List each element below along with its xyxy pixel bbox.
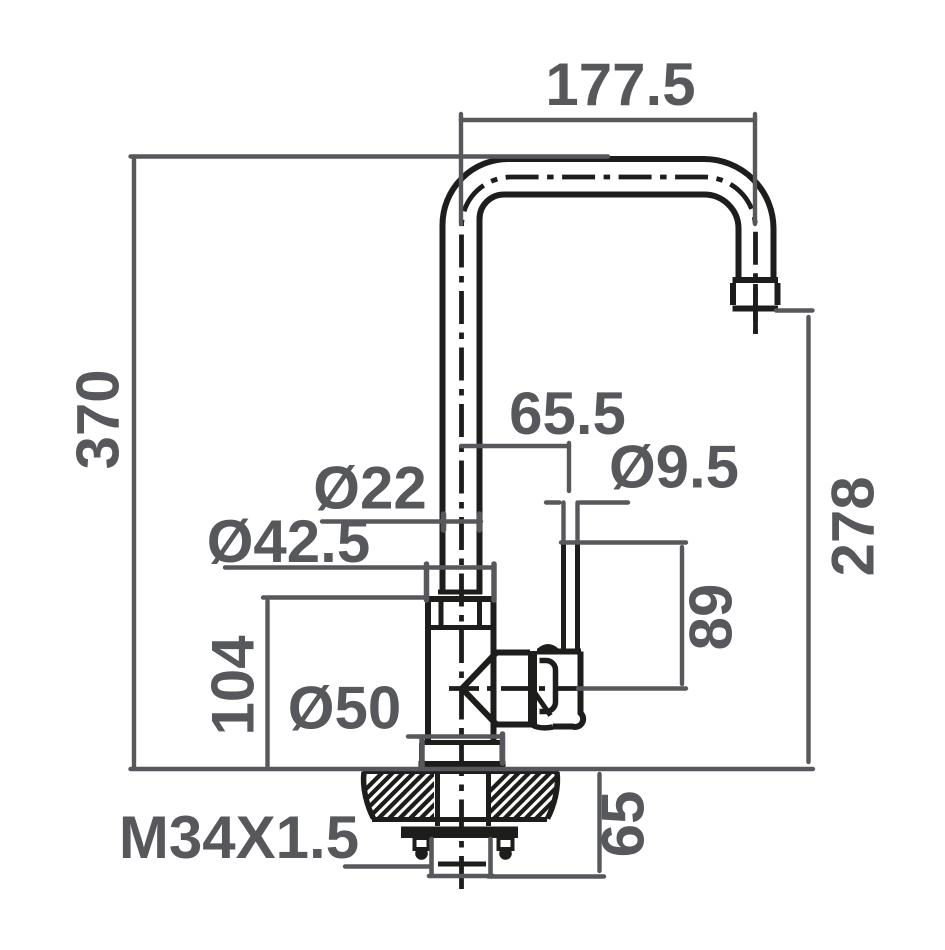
dia 50 leader [408,734,503,738]
shank inner bottom line [438,862,486,867]
base sides [422,743,503,763]
shank gray box [429,839,493,876]
handle cone [462,653,532,725]
deck line [131,767,814,771]
dia 42.5 ticks [427,564,495,600]
spout inner profile [480,195,739,595]
tube collar line [438,590,482,595]
svg-text:278: 278 [820,476,887,576]
flange right edge [548,772,558,819]
dim 65 bottom extension [488,874,604,878]
dia 22 ticks [444,514,480,530]
base step [421,740,503,745]
stud left foot [415,847,428,860]
dia 22 leader [322,519,481,523]
svg-text:M34X1.5: M34X1.5 [119,804,359,871]
hatch right [456,765,611,825]
handle centerline [449,686,578,691]
dim 278 line [806,317,810,762]
body top edge [428,596,494,602]
cartridge joint bar [528,651,537,726]
stud left outline [415,838,429,849]
outlet box [733,283,779,309]
svg-text:370: 370 [65,369,132,469]
dia 9.5 leader [546,500,628,504]
dim 89 line [680,547,684,684]
housing inner diagonal [534,692,551,716]
flange bottom edge [372,817,547,822]
flange left edge [364,772,374,819]
handle ball housing [537,652,583,727]
dim 177.5 right extension [753,114,757,224]
spout outer profile [443,159,774,594]
svg-text:177.5: 177.5 [545,51,695,118]
M34X1.5 leader [345,864,429,868]
housing top bump [539,647,557,651]
dim 278 top extension [776,308,813,312]
dim 65.5 line [461,444,569,448]
body left edge [425,599,431,742]
main centerline [462,177,756,889]
riser lines inside body [441,601,480,625]
svg-text:Ø42.5: Ø42.5 [207,508,370,575]
svg-text:89: 89 [678,584,745,651]
svg-text:Ø50: Ø50 [288,675,401,742]
housing inner pill [540,661,556,712]
dim 177.5 left extension [459,114,463,224]
dim 65 line [597,774,601,871]
dia 42.5 leader [225,565,493,569]
dia 50 ticks [422,734,503,766]
svg-text:Ø9.5: Ø9.5 [609,434,739,501]
nut bar [401,827,518,839]
dim 104 top extension [263,595,426,599]
dim 89 top extension [561,540,686,544]
stud right outline [499,838,513,849]
dim 65.5 tick [567,443,571,491]
svg-text:65: 65 [590,791,657,858]
svg-text:104: 104 [200,635,267,736]
outlet centerline stub [753,284,758,334]
dim 370 line [132,157,136,769]
base bottom bar [419,761,506,769]
dim 177.5 line [461,118,755,122]
flange top bar [363,768,559,774]
outlet joint line [733,277,779,283]
hatch left [330,765,495,825]
handle rod [564,543,578,650]
tube through deck [438,769,489,826]
stud right foot [499,847,512,860]
dim 370 top extension [131,154,609,158]
rod gray extension [564,503,578,542]
housing bottom-left sag [532,725,554,728]
dim 104 line [265,601,269,766]
body right edge [491,599,497,742]
dim 89 bottom extension [578,686,686,690]
body joint line [428,625,494,630]
